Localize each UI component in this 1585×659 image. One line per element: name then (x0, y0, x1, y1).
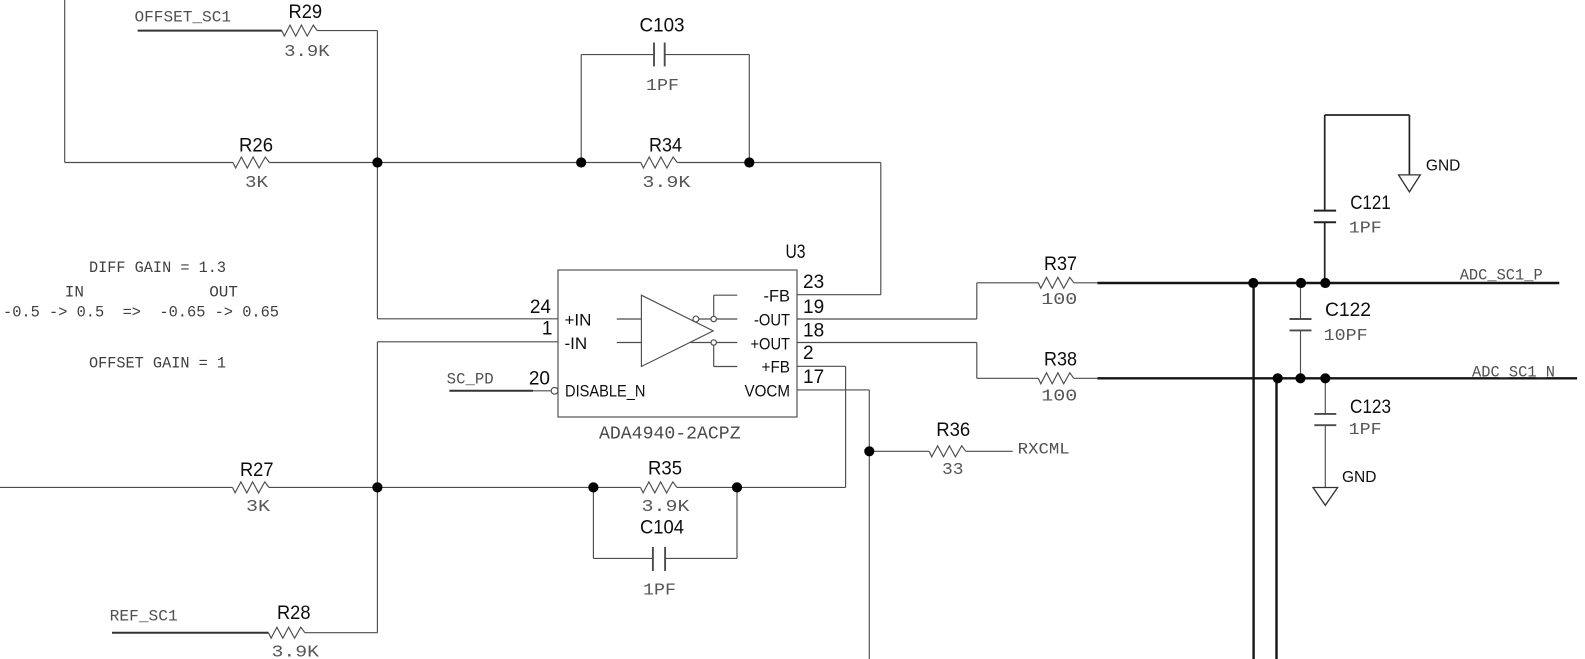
svg-text:C121: C121 (1350, 193, 1391, 214)
svg-text:R35: R35 (648, 459, 682, 480)
svg-text:-FB: -FB (764, 287, 791, 306)
svg-text:C103: C103 (640, 16, 685, 37)
svg-text:+OUT: +OUT (751, 335, 791, 354)
svg-text:2: 2 (803, 343, 814, 364)
svg-text:23: 23 (803, 272, 824, 293)
svg-text:ADC_SC1_N: ADC_SC1_N (1472, 364, 1555, 382)
svg-text:OFFSET GAIN = 1: OFFSET GAIN = 1 (89, 354, 226, 372)
svg-text:IN: IN (65, 283, 84, 301)
svg-text:24: 24 (530, 297, 552, 318)
svg-text:C122: C122 (1325, 300, 1371, 321)
svg-text:R37: R37 (1044, 254, 1077, 275)
svg-text:DISABLE_N: DISABLE_N (565, 381, 646, 400)
svg-text:3.9K: 3.9K (284, 43, 330, 62)
svg-text:-0.5 -> 0.5 => -0.65 -> 0.65: -0.5 -> 0.5 => -0.65 -> 0.65 (3, 304, 279, 322)
svg-text:33: 33 (942, 461, 964, 480)
svg-text:ADA4940-2ACPZ: ADA4940-2ACPZ (599, 425, 741, 445)
svg-text:3K: 3K (246, 498, 271, 517)
svg-text:R29: R29 (289, 2, 323, 23)
svg-text:ADC_SC1_P: ADC_SC1_P (1460, 267, 1543, 285)
svg-text:1: 1 (542, 319, 553, 340)
svg-text:GND: GND (1426, 157, 1460, 174)
svg-text:OUT: OUT (209, 283, 238, 301)
svg-text:3.9K: 3.9K (272, 643, 320, 659)
svg-text:GND: GND (1342, 469, 1376, 486)
svg-text:100: 100 (1041, 291, 1077, 310)
svg-text:10PF: 10PF (1324, 327, 1368, 346)
svg-text:C104: C104 (640, 517, 684, 538)
svg-text:17: 17 (803, 367, 824, 388)
svg-text:1PF: 1PF (646, 77, 679, 96)
svg-text:+FB: +FB (762, 357, 791, 376)
svg-text:-OUT: -OUT (754, 311, 790, 330)
svg-text:R36: R36 (936, 420, 970, 441)
svg-text:20: 20 (529, 368, 550, 389)
svg-text:C123: C123 (1350, 397, 1391, 418)
svg-text:R26: R26 (239, 136, 273, 157)
svg-text:REF_SC1: REF_SC1 (110, 608, 178, 626)
svg-text:R38: R38 (1044, 349, 1077, 370)
svg-text:DIFF GAIN = 1.3: DIFF GAIN = 1.3 (89, 259, 226, 277)
svg-text:18: 18 (803, 320, 824, 341)
svg-text:1PF: 1PF (1349, 220, 1382, 239)
svg-text:SC_PD: SC_PD (447, 371, 494, 389)
svg-text:R27: R27 (240, 460, 274, 481)
svg-text:1PF: 1PF (1349, 421, 1382, 440)
svg-text:OFFSET_SC1: OFFSET_SC1 (135, 9, 232, 27)
svg-text:VOCM: VOCM (745, 381, 791, 400)
svg-text:-IN: -IN (565, 334, 588, 353)
svg-text:100: 100 (1041, 388, 1077, 407)
svg-text:3K: 3K (245, 174, 269, 193)
svg-text:R28: R28 (277, 603, 311, 624)
svg-text:3.9K: 3.9K (642, 174, 691, 193)
svg-text:R34: R34 (649, 136, 682, 157)
svg-text:19: 19 (803, 297, 824, 318)
svg-text:+IN: +IN (565, 311, 592, 330)
svg-text:RXCML: RXCML (1018, 440, 1070, 458)
svg-text:U3: U3 (786, 242, 806, 263)
svg-text:3.9K: 3.9K (642, 498, 691, 517)
svg-text:1PF: 1PF (643, 581, 676, 600)
